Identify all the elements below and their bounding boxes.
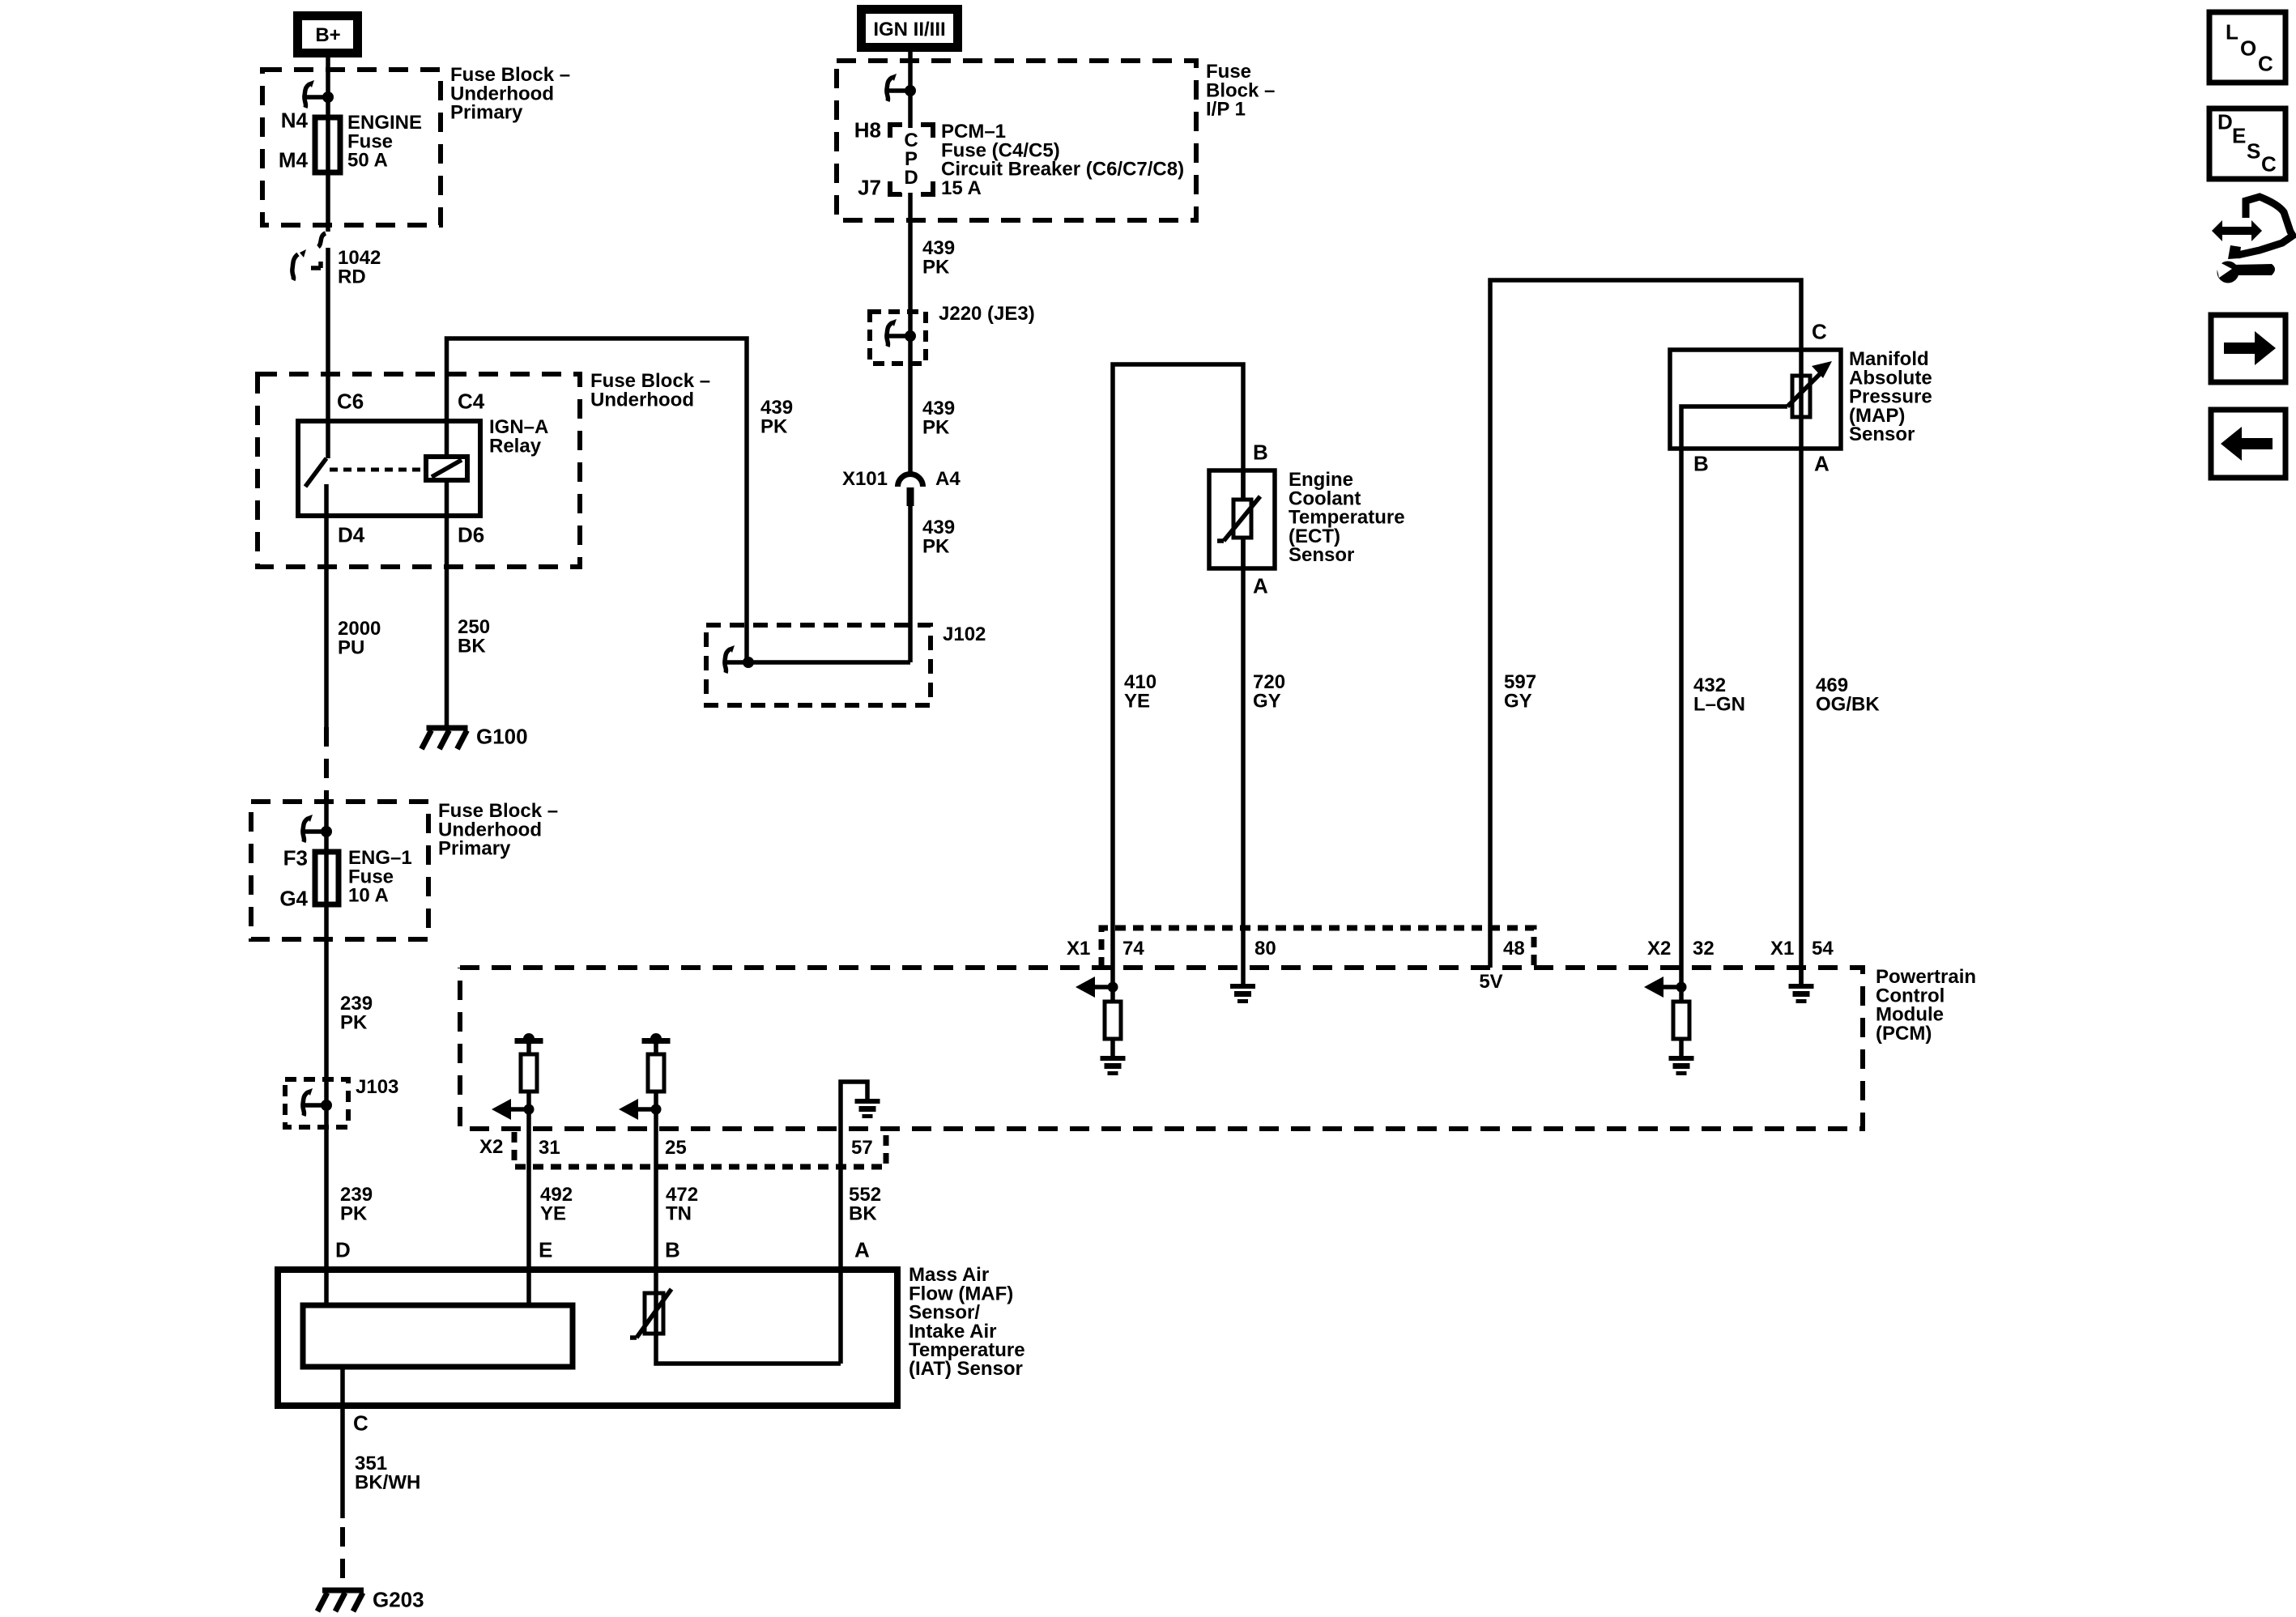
wire MAP internal to B [1681, 406, 1787, 987]
connector terminal at J103 [303, 1088, 332, 1116]
wire IGN to fuse block IP [908, 51, 913, 92]
wire J220 to X101 [908, 336, 913, 473]
PCM internal pin57 ground [841, 1082, 880, 1129]
svg-text:X1: X1 [1067, 938, 1090, 960]
svg-text:TN: TN [666, 1202, 692, 1224]
svg-text:A: A [854, 1238, 870, 1262]
svg-text:S: S [2247, 139, 2260, 164]
svg-text:L: L [2226, 20, 2238, 45]
svg-text:C: C [2261, 152, 2277, 177]
PCM internal pin74: arrow junction resistor ground [1076, 977, 1126, 1075]
svg-text:GY: GY [1253, 690, 1281, 712]
fuse PCM-1 CPD brackets [890, 125, 933, 194]
svg-text:BK: BK [849, 1202, 877, 1224]
wire relay D4 down 2000 PU [324, 484, 329, 727]
svg-text:J102: J102 [943, 623, 986, 645]
svg-text:PK: PK [340, 1202, 368, 1224]
svg-text:G203: G203 [373, 1588, 424, 1612]
wire 410 YE ECT signal [1113, 364, 1243, 987]
svg-text:54: 54 [1812, 938, 1834, 960]
svg-text:D: D [335, 1238, 351, 1262]
wire relay D6 down 250 BK [445, 480, 449, 728]
wire through ECT sensor [1241, 470, 1246, 568]
battery feed B+ [298, 16, 358, 53]
svg-text:10 A: 10 A [348, 885, 389, 907]
svg-text:Relay: Relay [489, 435, 542, 457]
svg-text:BK/WH: BK/WH [355, 1471, 420, 1493]
svg-text:PK: PK [922, 535, 950, 557]
svg-text:32: 32 [1693, 938, 1715, 960]
wire B+ to fuse block underhood [326, 57, 330, 99]
wire 720 GY [1241, 568, 1246, 984]
ignition feed IGN II/III [862, 10, 958, 48]
splice J220 (JE3) [870, 312, 926, 364]
svg-text:IGN II/III: IGN II/III [873, 19, 945, 40]
ECT thermistor [1217, 470, 1260, 568]
svg-text:D4: D4 [338, 523, 365, 547]
svg-text:C: C [353, 1411, 368, 1436]
MAP transducer [1787, 361, 1832, 417]
fuse block underhood primary box 3 [251, 802, 428, 939]
MAF sensor outer box [278, 1270, 897, 1406]
svg-text:PK: PK [340, 1011, 368, 1033]
svg-text:B: B [1253, 440, 1268, 465]
svg-text:GY: GY [1504, 690, 1532, 712]
svg-text:15 A: 15 A [941, 177, 982, 199]
wire into fuse block 3 [324, 802, 329, 852]
svg-text:74: 74 [1122, 938, 1144, 960]
svg-text:D: D [904, 167, 918, 189]
svg-text:C4: C4 [458, 389, 485, 414]
svg-text:(PCM): (PCM) [1876, 1023, 1932, 1045]
splice J103 [285, 1079, 348, 1127]
svg-text:B: B [1693, 452, 1709, 476]
svg-text:57: 57 [851, 1137, 873, 1159]
svg-text:PK: PK [760, 415, 788, 437]
connector terminal at J220 [887, 319, 916, 347]
svg-text:PK: PK [922, 256, 950, 278]
svg-text:RD: RD [338, 266, 366, 287]
wire 492 YE pin31 to MAF E [526, 1109, 531, 1305]
svg-text:F3: F3 [283, 846, 308, 870]
svg-text:50 A: 50 A [347, 150, 388, 172]
svg-text:X2: X2 [479, 1136, 503, 1158]
svg-text:N4: N4 [281, 109, 309, 133]
splice J102 [706, 625, 931, 705]
wire 351 BK/WH [340, 1367, 345, 1518]
svg-text:H8: H8 [854, 118, 881, 143]
svg-text:Primary: Primary [438, 838, 511, 860]
PCM internal pin25: supply resistor arrow [619, 1033, 671, 1120]
fuse ENG-1 10A [315, 852, 339, 904]
connector X1 dotted box top [1101, 928, 1534, 968]
MAF inner module box [303, 1305, 573, 1367]
svg-text:(IAT) Sensor: (IAT) Sensor [909, 1358, 1023, 1380]
svg-text:X1: X1 [1770, 938, 1794, 960]
PCM internal pin54 ground [1789, 968, 1814, 1003]
wire J102 horizontal [748, 660, 910, 665]
svg-text:J7: J7 [858, 176, 881, 200]
icon back arrow [2211, 410, 2285, 478]
svg-text:A: A [1253, 574, 1268, 598]
svg-text:B+: B+ [315, 24, 340, 46]
svg-text:80: 80 [1254, 938, 1276, 960]
PCM internal pin80 ground [1230, 984, 1255, 1003]
wire fuse to relay C6 [326, 248, 330, 458]
inline connector on 1042 RD wire [292, 233, 326, 280]
svg-text:25: 25 [665, 1137, 687, 1159]
svg-text:G100: G100 [476, 725, 528, 749]
svg-text:J103: J103 [356, 1076, 398, 1098]
relay control dashed link [330, 468, 424, 472]
svg-text:G4: G4 [279, 887, 308, 911]
relay coil [426, 457, 467, 480]
connector terminal at fuse block 3 [303, 815, 332, 842]
IAT thermistor [630, 1289, 671, 1338]
svg-text:A: A [1814, 452, 1830, 476]
svg-text:YE: YE [540, 1202, 566, 1224]
wire through CPD [908, 91, 913, 339]
connector terminal at fuse block IP [887, 74, 916, 101]
svg-text:Sensor: Sensor [1849, 423, 1915, 445]
wire 239 PK to MAF [324, 904, 329, 1305]
wire relay C4 up and right 439 PK [447, 338, 748, 662]
PCM internal pin31: supply resistor arrow [492, 1033, 543, 1120]
fuse ENGINE 50A [315, 117, 340, 172]
svg-text:E: E [2232, 124, 2246, 148]
fuse block underhood box 2 [258, 374, 580, 567]
wire 552 BK MAF A to pin57 [838, 1129, 843, 1364]
fuse block IP 1 box [837, 61, 1196, 220]
svg-text:48: 48 [1503, 938, 1525, 960]
svg-text:X101: X101 [842, 468, 888, 490]
fuse block underhood primary box 1 [262, 70, 441, 225]
ground G100 [422, 728, 468, 749]
icon LOC [2209, 12, 2285, 83]
connector terminal at fuse block 1 [305, 80, 334, 108]
svg-text:E: E [539, 1238, 552, 1262]
relay switch contact [305, 458, 326, 487]
wire 469 OG/BK [1799, 449, 1804, 984]
svg-text:O: O [2240, 36, 2256, 61]
svg-text:A4: A4 [935, 468, 961, 490]
PCM module box [460, 968, 1863, 1129]
svg-text:D6: D6 [458, 523, 484, 547]
wire 597 GY 5V reference [1490, 280, 1801, 968]
wire X101 to J102 [908, 506, 913, 662]
svg-text:YE: YE [1124, 690, 1150, 712]
svg-text:PK: PK [922, 416, 950, 438]
svg-text:Sensor: Sensor [1289, 544, 1354, 566]
wire IAT to ground bus [656, 1334, 841, 1364]
svg-text:OG/BK: OG/BK [1816, 693, 1880, 715]
svg-text:M4: M4 [279, 148, 309, 172]
icon forward arrow [2211, 315, 2285, 382]
wire through fuse [326, 97, 330, 232]
svg-text:B: B [665, 1238, 680, 1262]
svg-text:C: C [1812, 320, 1827, 344]
connector terminal at J102 [725, 645, 754, 673]
inline connector X101 pin A4 [898, 474, 923, 507]
icon DESC [2209, 109, 2285, 179]
svg-text:31: 31 [539, 1137, 560, 1159]
svg-text:J220 (JE3): J220 (JE3) [939, 303, 1035, 325]
svg-text:5V: 5V [1479, 971, 1502, 993]
ECT sensor box [1209, 470, 1275, 568]
svg-text:PU: PU [338, 636, 364, 658]
svg-text:BK: BK [458, 635, 486, 657]
svg-text:D: D [2217, 110, 2233, 134]
svg-text:Primary: Primary [450, 102, 523, 124]
MAP sensor box [1670, 350, 1841, 449]
ground G203 [317, 1590, 364, 1611]
svg-text:I/P 1: I/P 1 [1206, 99, 1246, 121]
svg-text:C6: C6 [337, 389, 364, 414]
connector X2 dotted box bottom [514, 1129, 886, 1167]
wire 472 TN pin25 to MAF B [654, 1109, 658, 1293]
svg-text:Underhood: Underhood [590, 389, 694, 411]
icon vehicle wrench [2212, 197, 2293, 283]
svg-text:L–GN: L–GN [1693, 693, 1745, 715]
svg-text:X2: X2 [1647, 938, 1671, 960]
PCM internal pin32: arrow junction resistor ground [1644, 977, 1694, 1075]
svg-text:C: C [2258, 52, 2273, 76]
relay IGN-A [298, 421, 480, 516]
